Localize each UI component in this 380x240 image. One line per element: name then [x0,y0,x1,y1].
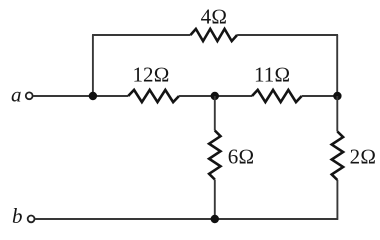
wire node2 down to R6 [214,96,216,131]
junction bottom node [211,215,219,223]
terminal a [26,92,33,99]
wire node3 down to R2 [336,96,338,132]
svg-text:12Ω: 12Ω [133,63,170,87]
svg-text:2Ω: 2Ω [350,144,377,168]
svg-text:4Ω: 4Ω [201,4,228,28]
svg-text:6Ω: 6Ω [228,145,255,169]
wire R11 to node3 [302,95,338,97]
wire node2 to R11 [215,95,252,97]
wire node1 to R12 [93,95,128,97]
junction node3 [333,92,341,100]
svg-text:11Ω: 11Ω [254,63,290,87]
wire a to node1 [33,95,93,97]
wire b to bottom node [35,218,215,220]
wire R2 to bottom right corner [336,180,338,220]
junction node2 [211,92,219,100]
wire node1 up to top rail [92,35,94,97]
wire right side top [336,35,338,97]
terminal b [28,216,35,223]
wire top rail left [92,34,190,36]
svg-text:b: b [12,204,23,228]
resistor 11ohm [252,90,302,102]
junction node1 [89,92,97,100]
wire top rail right [237,34,338,36]
resistor 6ohm [209,131,220,180]
wire R12 to node2 [179,95,215,97]
wire R6 to bottom node [214,180,216,220]
resistor 2ohm [332,132,343,181]
resistor 12ohm [128,90,179,102]
wire bottom node to corner [215,218,338,220]
resistor 4ohm [191,29,238,41]
svg-text:a: a [11,83,22,107]
